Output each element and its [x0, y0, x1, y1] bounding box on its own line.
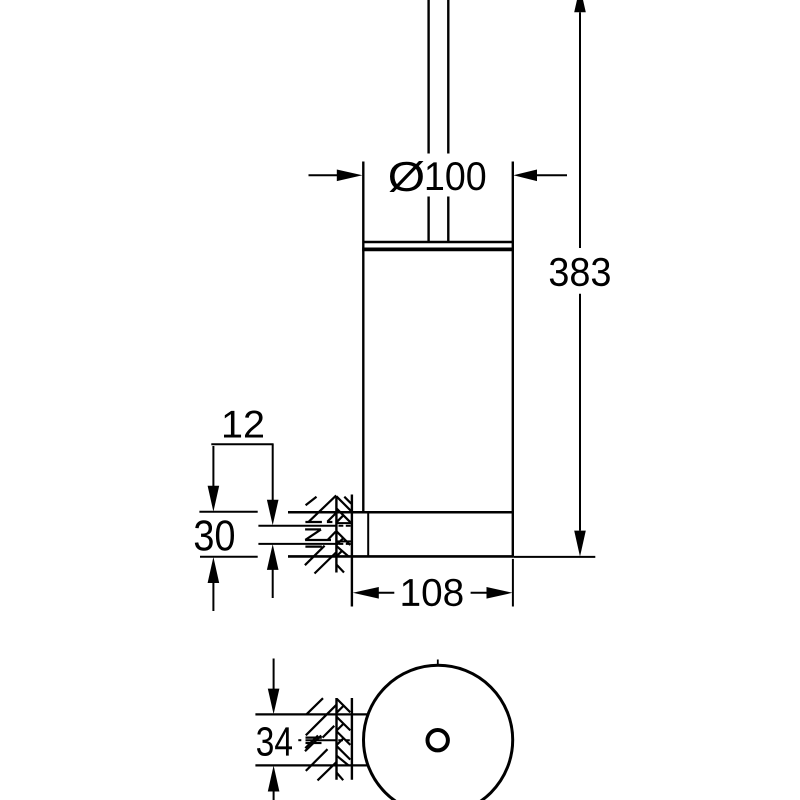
bracket bottom line + dim 34 lower reference	[255, 764, 368, 766]
dimension 12 upper arrowhead	[267, 500, 279, 525]
bracket arm bottom line	[258, 543, 336, 545]
dimension Ø100 right tail	[536, 174, 567, 176]
base plate top line	[288, 511, 514, 514]
dimension text 12	[224, 411, 263, 438]
dimension text 30	[195, 520, 234, 551]
lid thick line	[362, 247, 514, 251]
wall face line (bottom view)	[351, 698, 353, 780]
bracket arm hidden dashes in wall top	[339, 525, 351, 527]
base plate right edge	[367, 512, 369, 556]
dimension 34 upper arrowhead	[268, 689, 280, 715]
dimension 30 upper arrowhead	[208, 486, 220, 512]
bracket arm hidden dashes in wall bottom	[339, 543, 351, 545]
dimension 383 vertical line	[579, 12, 581, 530]
wall zone solid segment upper	[336, 522, 351, 524]
dimension text 108	[403, 579, 463, 607]
dimension 12 lower arrow shaft	[272, 569, 274, 598]
dimension 12 lower arrowhead	[267, 544, 279, 570]
dimension 30 lower reference line	[200, 556, 258, 558]
cylinder right edge + extension line up	[512, 162, 514, 557]
bracket top line + dim 34 upper reference	[255, 713, 367, 715]
lid top thin line	[363, 241, 513, 243]
wall hatch bottom view	[305, 698, 350, 780]
bottom extension line to 383 dimension	[514, 556, 595, 558]
dimension 383 bottom arrowhead	[574, 531, 586, 557]
brush handle left line	[427, 0, 429, 242]
dimension text Ø	[389, 161, 423, 192]
dimension 108 right tail	[471, 592, 488, 594]
dimension 34 lower arrow shaft	[273, 791, 275, 800]
wall hatch side view	[305, 495, 352, 573]
dimension 34 upper arrow shaft	[273, 659, 275, 690]
dimension text 34	[257, 727, 292, 756]
center hole circle	[428, 730, 448, 750]
wall face line (side view)	[351, 495, 353, 607]
dimension 30 lower arrow shaft	[212, 583, 214, 611]
dimension Ø100 line left tail	[309, 174, 339, 176]
body circle (top view)	[364, 665, 513, 800]
dimension 34 lower arrowhead	[268, 766, 280, 792]
dimension Ø100 right arrowhead	[513, 170, 537, 182]
dimension 108 left tail	[378, 592, 394, 594]
dimension Ø100 left arrowhead	[337, 170, 363, 182]
dimension text 100	[427, 162, 485, 190]
dimension 383 top arrowhead	[574, 0, 586, 12]
dimension 108 right extension line	[512, 559, 514, 607]
bracket arm top line	[258, 525, 336, 527]
dimension 30 upper reference line	[199, 511, 257, 513]
dimension 30 lower arrowhead	[208, 557, 220, 583]
dimension 30 upper arrow shaft	[212, 446, 214, 486]
wall inner vertical line (bottom view)	[335, 698, 337, 780]
wall inner vertical line (side view)	[335, 496, 337, 573]
centerline dash-dot (bottom view)	[298, 739, 301, 741]
dimension 108 right arrowhead	[487, 587, 513, 599]
dimension 12 upper arrow shaft	[272, 444, 274, 500]
brush handle right line	[447, 0, 449, 242]
dimension 108 left arrowhead	[353, 587, 379, 599]
base plate bottom line	[288, 555, 514, 558]
dimension text 383	[550, 258, 610, 286]
cylinder left edge + extension line up	[362, 162, 364, 513]
wall zone solid segment lower	[336, 540, 351, 542]
circle top centerline tick	[437, 660, 439, 667]
dimension 12 leader line	[211, 443, 273, 445]
